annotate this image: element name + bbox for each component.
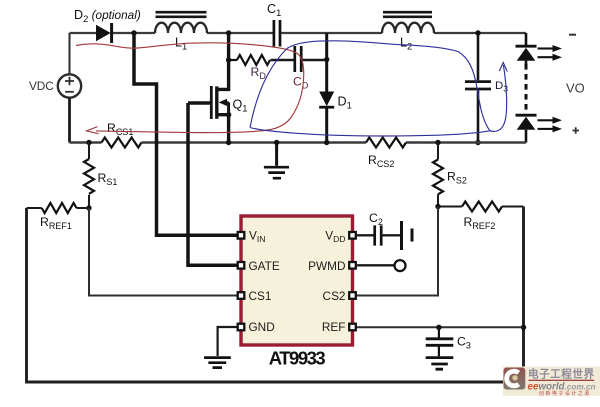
node RS2 tap [435, 140, 440, 145]
node output cap top [475, 30, 480, 35]
node after D2 [131, 30, 136, 35]
wire VDD [356, 234, 374, 236]
watermark eeworld panel [503, 367, 600, 396]
wire PWMD [356, 264, 394, 266]
diode D2 [96, 23, 112, 43]
svg-text:GATE: GATE [249, 259, 280, 273]
resistor RREF2 [438, 202, 524, 212]
svg-text:CS2: CS2 [323, 289, 346, 303]
node RS2 / RREF2 / CS2 [435, 204, 440, 209]
wire bottom rail [70, 141, 527, 143]
svg-text:AT9933: AT9933 [269, 348, 326, 369]
ground (power stage) [264, 143, 289, 179]
wire top rail [70, 32, 527, 34]
label plus [573, 127, 580, 134]
wire CS1 [89, 208, 238, 296]
terminal PWMD circle [395, 260, 406, 271]
wire outer left and bottom [27, 208, 524, 382]
pin CS1 [238, 292, 245, 299]
resistor RS2 [433, 143, 443, 207]
ground (C3) [426, 358, 454, 370]
watermark logo [504, 368, 526, 390]
IC U1 AT9933 [241, 216, 353, 345]
node RS1 / RREF1 [86, 205, 91, 210]
node ground tap [274, 140, 279, 145]
pin CS2 [349, 292, 356, 299]
node REF / outer loop [521, 325, 526, 330]
capacitor C3 [426, 327, 454, 356]
svg-text:VO: VO [566, 81, 585, 96]
svg-text:REF: REF [322, 320, 346, 334]
label minus [569, 34, 576, 36]
capacitor C2 [375, 225, 400, 245]
diode D1 [319, 33, 334, 143]
node D1 bottom [324, 140, 329, 145]
node Q1 source corner [226, 112, 231, 117]
node L1-right / drain [226, 30, 231, 35]
wire RREF2 down [522, 207, 525, 328]
node C3 tap [436, 325, 441, 330]
pin GATE [238, 262, 245, 269]
svg-text:VDC: VDC [29, 79, 54, 93]
inductor L1 [155, 12, 207, 33]
resistor RCS2 [366, 138, 406, 148]
transistor Q1 [188, 33, 229, 143]
svg-text:GND: GND [249, 320, 275, 334]
node Q1 source on rail [226, 140, 231, 145]
resistor RD [229, 55, 270, 65]
capacitor CD [271, 46, 327, 72]
watermark rule [529, 380, 595, 381]
node drain / snubber tap [226, 57, 231, 62]
wire GATE branch [188, 103, 238, 265]
svg-text:电子工程世界: 电子工程世界 [528, 367, 595, 380]
annotation blue current loop [250, 41, 507, 136]
ground (GND pin) [204, 358, 231, 368]
resistor RREF1 [27, 203, 90, 213]
source VDC [58, 33, 81, 143]
resistor RS1 [84, 143, 94, 209]
node RS1 tap [86, 140, 91, 145]
pin GND [238, 324, 245, 331]
LED string [516, 33, 537, 143]
node snubber-D1 junction [324, 57, 329, 62]
wire VIN branch [134, 33, 238, 235]
pin REF [349, 324, 356, 331]
capacitor D3 (output) [465, 33, 491, 143]
pin PWMD [349, 262, 356, 269]
wire REF [356, 326, 524, 328]
wire GND pin [218, 327, 238, 356]
svg-text:eeworld.com.cn: eeworld.com.cn [528, 381, 596, 392]
inductor L2 [382, 12, 434, 33]
node output cap bottom [475, 140, 480, 145]
resistor RCS1 [102, 138, 142, 148]
wire CS2 [356, 207, 438, 296]
annotation red current loop [76, 43, 304, 134]
ground (C2, rotated) [402, 221, 413, 250]
svg-text:PWMD: PWMD [308, 259, 345, 273]
pin VIN [238, 232, 245, 239]
svg-text:创新电子设计之源: 创新电子设计之源 [539, 390, 591, 397]
pin VDD [349, 232, 356, 239]
capacitor C1 [274, 20, 280, 47]
LED light arrows [538, 45, 563, 132]
svg-text:CS1: CS1 [249, 289, 272, 303]
